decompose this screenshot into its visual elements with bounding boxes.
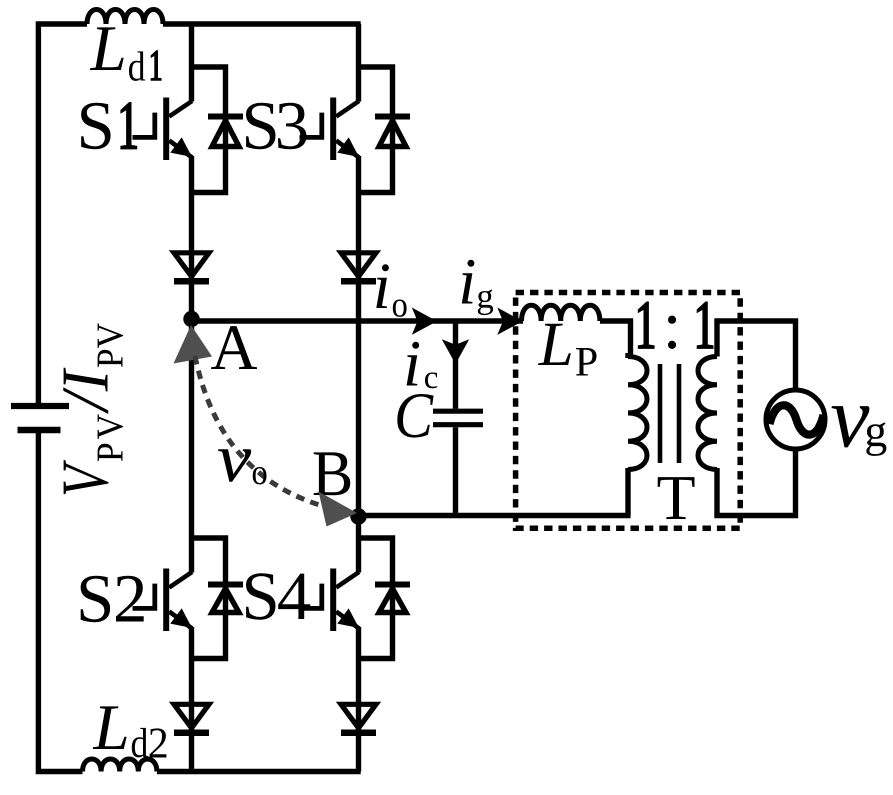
IGBT S2 emitter lead bbox=[169, 612, 192, 629]
wire: capacitor C top lead bbox=[453, 321, 458, 409]
wire: right leg from node B to S4 bbox=[356, 516, 361, 573]
wire: left leg from S2 emitter to bottom bus bbox=[189, 627, 194, 772]
antiparallel diode of S3 (triangle) bbox=[379, 121, 406, 147]
IGBT S3 emitter lead bbox=[336, 141, 359, 158]
current arrow io bbox=[412, 308, 437, 335]
IGBT S2: branch wires to antiparallel diode bbox=[192, 538, 226, 659]
current arrow ic bbox=[442, 339, 469, 364]
IGBT S2 gate lead bbox=[133, 584, 155, 609]
series diode D7 (below S2) (cathode bar) bbox=[174, 729, 209, 736]
wire: right leg from S4 emitter to bottom bus bbox=[356, 627, 361, 772]
IGBT S3: branch wires to antiparallel diode bbox=[359, 67, 393, 193]
label io bbox=[376, 264, 389, 308]
wire: transformer primary leads bbox=[625, 353, 630, 358]
wire: right leg from S3 emitter through A-row to node B bbox=[356, 156, 361, 516]
antiparallel diode of S4 (cathode bar) bbox=[375, 582, 410, 588]
IGBT S2 body bar bbox=[163, 569, 169, 632]
antiparallel diode of S1 (triangle) bbox=[212, 121, 239, 147]
antiparallel diode of S2 (cathode bar) bbox=[208, 582, 243, 588]
wire: top bus from Ld1 to S3 leg bbox=[163, 21, 361, 26]
wire: left leg from S1 emitter to node A bbox=[189, 156, 194, 321]
antiparallel diode of S3 (cathode bar) bbox=[375, 114, 410, 120]
wire: transformer secondary top lead and to vg branch bbox=[717, 321, 796, 391]
inductor LP bbox=[522, 305, 600, 321]
antiparallel diode of S4 (triangle) bbox=[379, 589, 406, 613]
label S3 bbox=[246, 103, 276, 149]
antiparallel diode of S1 (cathode bar) bbox=[208, 114, 243, 120]
series diode D5 (below S1) (triangle) bbox=[174, 253, 209, 277]
wire: node A output row to filter bbox=[192, 318, 524, 323]
dashed filter box bbox=[516, 293, 741, 529]
vo dashed curve bbox=[195, 356, 330, 508]
IGBT S1: branch wires to antiparallel diode bbox=[192, 67, 226, 193]
IGBT S1 gate lead bbox=[133, 113, 155, 138]
label VPV/IPV (rotated) bbox=[63, 323, 123, 494]
wire: left rail upper segment and top-left corner bbox=[38, 24, 87, 403]
antiparallel diode of S2 (triangle) bbox=[212, 589, 239, 613]
wire: node B row to transformer primary bbox=[359, 513, 631, 518]
series diode D7 (below S2) (triangle) bbox=[174, 704, 209, 728]
IGBT S2 collector lead bbox=[169, 572, 192, 588]
label ig bbox=[462, 260, 475, 304]
DC source VPV/IPV negative plate bbox=[18, 427, 61, 434]
wire: left rail lower segment and bottom-left corner bbox=[38, 433, 82, 772]
IGBT S3 collector lead bbox=[336, 101, 359, 117]
series diode D6 (below S3) (cathode bar) bbox=[341, 278, 376, 285]
wire: capacitor C bottom lead bbox=[453, 427, 458, 515]
transformer T core line left bbox=[658, 364, 663, 463]
vo arrow head at node A (grey, pointing up) bbox=[174, 325, 213, 364]
label Ld1 bbox=[90, 27, 124, 70]
series diode D6 (below S3) (triangle) bbox=[341, 253, 376, 277]
AC grid source vg (sine wave) bbox=[770, 405, 824, 434]
current arrow ig bbox=[497, 308, 522, 335]
label turns ratio 1:1 bbox=[639, 302, 654, 348]
label vo bbox=[218, 449, 251, 481]
wire: LP to transformer primary top bbox=[600, 321, 631, 357]
label S4 bbox=[246, 573, 276, 619]
label vg bbox=[832, 406, 870, 447]
IGBT S2 emitter arrowhead bbox=[170, 608, 192, 628]
label Ld2 bbox=[93, 706, 127, 749]
capacitor C bottom plate bbox=[433, 422, 483, 427]
wire: right leg from top bus to S3 bbox=[356, 24, 361, 102]
transformer T core line right bbox=[677, 364, 682, 463]
IGBT S1 body bar bbox=[163, 98, 169, 161]
IGBT S3 emitter arrowhead bbox=[337, 137, 359, 157]
IGBT S4 emitter arrowhead bbox=[337, 608, 359, 628]
IGBT S1 emitter lead bbox=[169, 141, 192, 158]
label S1 bbox=[81, 103, 111, 149]
label C bbox=[397, 394, 433, 438]
IGBT S4: branch wires to antiparallel diode bbox=[359, 538, 393, 659]
vo arrow head at node B (grey, pointing right) bbox=[319, 492, 358, 527]
DC source VPV/IPV positive plate bbox=[11, 403, 69, 409]
capacitor C top plate bbox=[433, 409, 483, 414]
label T bbox=[658, 477, 695, 519]
wire: bottom bus from Ld2 to S4 leg bbox=[157, 769, 361, 774]
IGBT S4 emitter lead bbox=[336, 612, 359, 629]
series diode D8 (below S4) (triangle) bbox=[341, 704, 376, 728]
IGBT S4 collector lead bbox=[336, 572, 359, 588]
wire: left leg from top bus to S1 bbox=[189, 24, 194, 102]
label S2 bbox=[81, 576, 111, 622]
IGBT S4 body bar bbox=[330, 569, 336, 632]
IGBT S4 gate lead bbox=[300, 584, 322, 609]
transformer T secondary winding bbox=[698, 357, 717, 470]
label node B bbox=[314, 452, 351, 495]
label node A bbox=[211, 326, 257, 369]
IGBT S3 gate lead bbox=[300, 113, 322, 138]
IGBT S3 body bar bbox=[330, 98, 336, 161]
transformer T primary winding bbox=[628, 357, 647, 470]
label ic bbox=[407, 342, 420, 386]
series diode D8 (below S4) (cathode bar) bbox=[341, 729, 376, 736]
label LP bbox=[538, 324, 571, 365]
node A junction dot bbox=[183, 311, 199, 327]
series diode D5 (below S1) (cathode bar) bbox=[174, 278, 209, 285]
wire: vg bottom lead and secondary bottom lead bbox=[717, 449, 796, 516]
wire: left leg from node A to S2 bbox=[189, 321, 194, 573]
node B junction dot bbox=[350, 508, 366, 524]
inductor Ld2 bbox=[83, 759, 157, 772]
inductor Ld1 bbox=[87, 10, 163, 25]
AC grid source vg (circle) bbox=[766, 390, 825, 449]
IGBT S1 emitter arrowhead bbox=[170, 137, 192, 157]
IGBT S1 collector lead bbox=[169, 101, 192, 117]
